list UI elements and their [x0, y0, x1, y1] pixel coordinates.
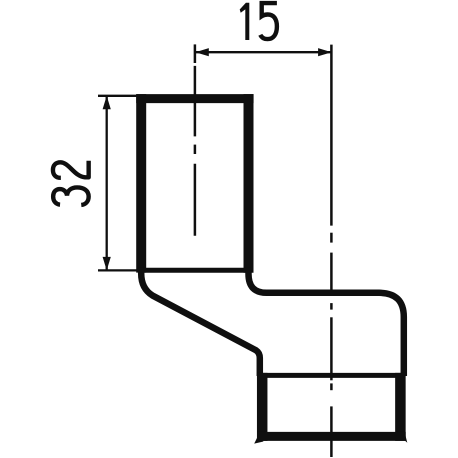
arrowhead top of dim 32 — [103, 96, 111, 110]
dimension text 15: digit 5 — [260, 3, 277, 39]
arrowhead right of dim 15 — [318, 48, 332, 56]
arrowhead bottom of dim 32 — [103, 257, 111, 271]
dimension text 32 (rotated 90 deg) — [53, 161, 89, 205]
bottom tube: bottom-left miter spur — [254, 436, 263, 444]
bottom tube: bottom end face (thick) — [257, 432, 406, 441]
top tube: left edge (thick) — [136, 94, 146, 273]
bottom tube: right edge (thick) — [395, 373, 406, 441]
top tube: right edge (thick) — [244, 94, 254, 273]
dimension line 15 — [195, 51, 332, 53]
dimension text 15: digit 1 — [240, 3, 250, 40]
body outline: right arm from top tube to bottom tube — [249, 270, 404, 376]
centerline bottom tube (right) — [330, 45, 333, 457]
top tube: bottom junction line (thin) — [138, 268, 251, 273]
bottom tube: bottom-right miter spur — [400, 433, 408, 443]
dimension line 32 — [106, 96, 108, 270]
arrowhead left of dim 15 — [195, 48, 209, 56]
bottom tube: top junction line (thin) — [257, 373, 405, 378]
extension line top (y=95.8) — [98, 95, 142, 97]
digit 3 — [53, 187, 89, 205]
top tube: top end face (thick) — [136, 94, 253, 103]
extension line bottom (y=270.4) — [98, 269, 138, 271]
bottom tube: left edge (thick) — [257, 373, 268, 441]
body outline: left S-curve and diagonal to bottom tube — [141, 270, 260, 376]
digit 2 — [53, 161, 89, 178]
centerline top tube (left) — [194, 44, 197, 235]
